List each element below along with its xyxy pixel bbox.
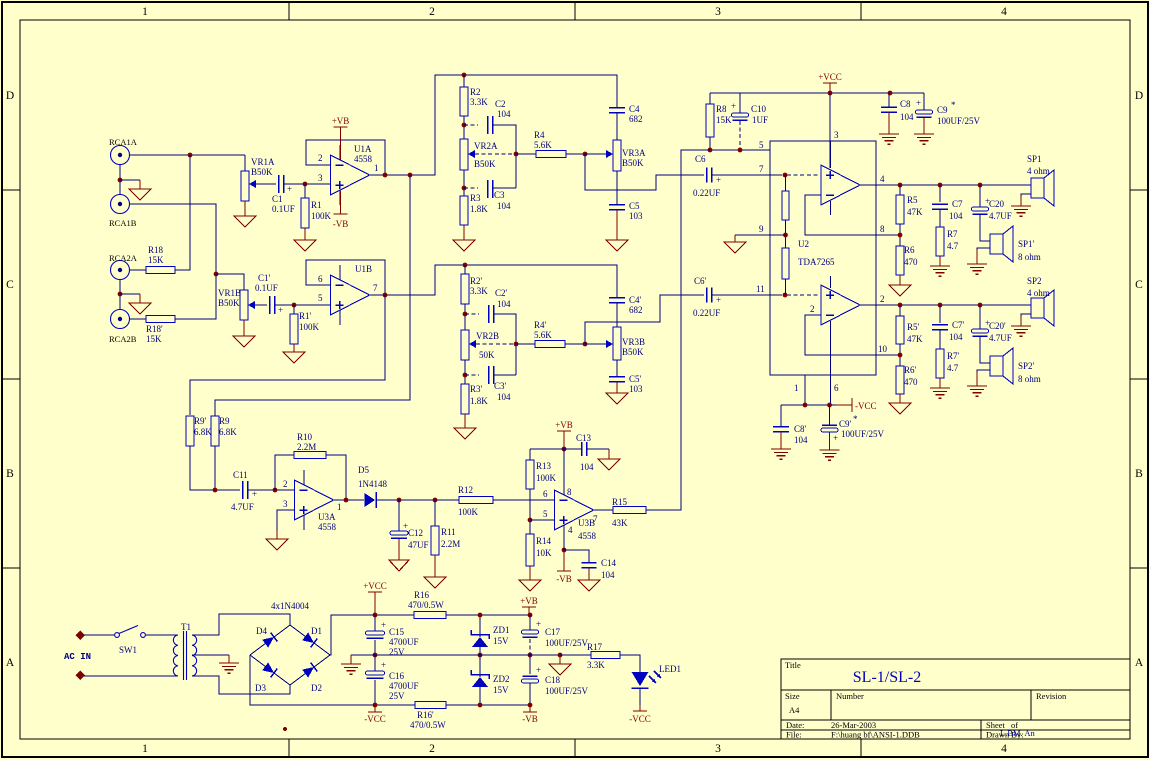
ground SP2' [967, 372, 987, 396]
resistor R7 [936, 227, 944, 256]
capacitor C20' [972, 318, 991, 336]
resistor R9 [211, 416, 219, 446]
svg-text:RCA1A: RCA1A [109, 137, 138, 147]
svg-text:R11: R11 [441, 527, 456, 537]
wire C9' top [829, 405, 831, 425]
svg-text:R9: R9 [219, 416, 230, 426]
svg-text:U1A: U1A [354, 144, 372, 154]
capacitor C7 [932, 204, 948, 209]
junction C1' R1' [292, 303, 297, 308]
svg-text:C16: C16 [389, 671, 405, 681]
svg-text:C11: C11 [233, 470, 248, 480]
wire RCA1A shield to RCA1B [119, 165, 121, 195]
wire pin8 +VB stem [563, 449, 565, 485]
title block [781, 659, 1130, 739]
wire C11 to U3A pin2 [248, 489, 295, 491]
svg-text:-VB: -VB [333, 219, 349, 229]
junction +VB R13 C13 [562, 447, 567, 452]
svg-text:100UF/25V: 100UF/25V [545, 686, 589, 696]
svg-text:47UF: 47UF [408, 540, 429, 550]
ground RCA1 [129, 180, 151, 200]
svg-text:+: + [381, 620, 386, 630]
svg-text:C20': C20' [989, 321, 1006, 331]
svg-text:C: C [1135, 279, 1143, 291]
svg-text:2: 2 [283, 479, 288, 489]
wire RCA1A to VR1A [130, 154, 246, 156]
junction VR2B R3' C3' [463, 373, 468, 378]
svg-text:100UF/25V: 100UF/25V [545, 638, 589, 648]
svg-text:+: + [716, 295, 721, 305]
capacitor C4 [609, 108, 625, 113]
svg-text:4 ohm: 4 ohm [1027, 288, 1050, 298]
power -VB supply [522, 705, 538, 724]
svg-text:C2: C2 [495, 99, 506, 109]
svg-text:VR1B: VR1B [218, 288, 241, 298]
wire C15 bottom [374, 640, 376, 655]
svg-text:4.7UF: 4.7UF [989, 333, 1012, 343]
ground U3A pin3 [266, 530, 288, 550]
ground R17 tap [549, 655, 571, 675]
wire divider middle [785, 220, 787, 248]
svg-text:3: 3 [318, 173, 323, 183]
capacitor C10 [731, 101, 749, 120]
speaker SP1' [990, 226, 1013, 262]
wire shield to ground 2 [120, 293, 140, 295]
svg-text:100UF/25V: 100UF/25V [841, 429, 885, 439]
svg-text:+: + [536, 665, 541, 675]
junction C11 feedback [273, 488, 278, 493]
U2 pin6 stem [830, 321, 832, 405]
svg-text:RCA2B: RCA2B [109, 334, 137, 344]
resistor R3 [460, 196, 468, 225]
wire bridge - to -VCC rail [250, 655, 415, 705]
U2 pin3 stem [830, 141, 832, 168]
svg-text:100K: 100K [536, 473, 557, 483]
transformer T1 [173, 631, 196, 680]
svg-text:4: 4 [880, 174, 885, 184]
wire C6 to U2 pin7 [712, 174, 782, 176]
ground C9 [914, 118, 934, 144]
svg-text:B50K: B50K [474, 159, 496, 169]
wire C16 bottom [374, 680, 376, 705]
wire C15 top [374, 615, 376, 631]
wire C4' to VR3B [616, 303, 618, 328]
op-amp U1B [331, 265, 370, 325]
svg-text:3: 3 [715, 6, 721, 18]
svg-text:Size: Size [785, 691, 800, 701]
wire T1 secondary bottom to bridge [192, 676, 290, 694]
RCA jack RCA1A [111, 146, 130, 165]
svg-text:2: 2 [429, 6, 435, 18]
capacitor C5' [609, 377, 625, 382]
ground R3 [453, 225, 475, 251]
resistor R3' [461, 384, 469, 414]
svg-text:R4: R4 [534, 130, 545, 140]
wire C17 bottom [529, 639, 531, 655]
svg-text:0.1UF: 0.1UF [255, 283, 278, 293]
capacitor C8 [881, 107, 897, 112]
junction C18 -VB rail [528, 703, 533, 708]
svg-text:+: + [716, 175, 721, 185]
svg-text:3.3K: 3.3K [587, 660, 605, 670]
wire U1B feedback [306, 260, 385, 295]
wire to VR3A wiper [585, 153, 607, 155]
capacitor C11 [243, 481, 258, 499]
svg-text:0.22UF: 0.22UF [693, 188, 720, 198]
junction R2 C2 [462, 123, 467, 128]
resistor R8 [706, 104, 714, 137]
resistor R13 [526, 460, 534, 489]
potentiometer VR3B wiper [606, 340, 613, 348]
power +VCC supply [363, 581, 387, 615]
wire pin3 to U2 amp [829, 93, 831, 168]
svg-text:SP1: SP1 [1027, 154, 1042, 164]
wire C3 right [493, 187, 516, 189]
svg-text:C13: C13 [576, 433, 592, 443]
svg-text:1: 1 [794, 383, 799, 393]
wire C12 top [398, 500, 400, 531]
svg-text:+VCC: +VCC [363, 581, 387, 591]
wire C18 top [529, 655, 531, 674]
svg-text:R5: R5 [907, 195, 918, 205]
wire U1B output to R9' [190, 295, 385, 415]
junction C10 pin5 [738, 148, 743, 153]
wire R11 top [434, 500, 436, 526]
svg-text:R10: R10 [297, 432, 313, 442]
svg-text:C14: C14 [601, 558, 617, 568]
svg-text:-VB: -VB [556, 574, 572, 584]
wire R13 top [529, 449, 531, 460]
svg-text:C8': C8' [794, 424, 807, 434]
wire RCA2A shield to RCA2B [119, 280, 121, 310]
wire pin4 output [860, 184, 1031, 186]
op-amp U2 upper [821, 165, 860, 205]
svg-text:4700UF: 4700UF [389, 637, 419, 647]
svg-text:D: D [1135, 90, 1143, 102]
ground C8 [879, 112, 899, 144]
ground SP1 [1011, 196, 1031, 216]
wire C7 top [939, 185, 941, 202]
svg-text:1.8K: 1.8K [470, 204, 488, 214]
wire R10 to output [326, 455, 346, 500]
wire T1 center tap [192, 654, 229, 656]
wire VR1A wiper to C1 [256, 183, 276, 185]
svg-text:470/0.5W: 470/0.5W [410, 720, 446, 730]
wire ground rail [375, 654, 560, 656]
wire C10 top [739, 93, 741, 113]
svg-text:RCA1B: RCA1B [109, 218, 137, 228]
ground VR1A [234, 201, 256, 227]
svg-text:Revision: Revision [1036, 691, 1067, 701]
svg-text:D1: D1 [311, 626, 322, 636]
svg-text:4x1N4004: 4x1N4004 [271, 601, 309, 611]
svg-text:T1: T1 [181, 622, 191, 632]
svg-text:6: 6 [318, 274, 323, 284]
wire node to VR1B [216, 274, 244, 290]
wire wiper to R4 [516, 153, 536, 155]
wire pin7 junction to amp [787, 174, 819, 176]
wire C6' to U2 pin11 [712, 294, 782, 296]
U2 lower amp upper stub [830, 276, 832, 288]
potentiometer VR3A wiper [606, 150, 613, 158]
svg-text:50K: 50K [479, 350, 495, 360]
svg-text:2: 2 [880, 294, 885, 304]
svg-text:R4': R4' [534, 320, 547, 330]
port AC IN pin L [76, 631, 85, 640]
svg-text:682: 682 [629, 114, 643, 124]
svg-text:Number: Number [836, 691, 864, 701]
resistor R9' [186, 416, 194, 446]
svg-text:ZD1: ZD1 [493, 625, 510, 635]
wire C20' top [979, 305, 981, 329]
junction R4' VR3B C6' [583, 342, 588, 347]
resistor R10 [294, 452, 326, 459]
junction R13 R14 pin5 [528, 518, 533, 523]
svg-text:4.7: 4.7 [947, 363, 959, 373]
svg-text:100K: 100K [299, 322, 320, 332]
capacitor C14 [582, 563, 597, 568]
svg-text:2: 2 [429, 743, 435, 755]
port AC IN pin N [76, 671, 85, 680]
resistor R4' [535, 341, 565, 348]
capacitor C1' [270, 296, 284, 315]
ground R11 [424, 555, 446, 588]
svg-text:VR2B: VR2B [476, 331, 499, 341]
wire pin4 stem [563, 525, 565, 550]
svg-text:C9': C9' [839, 419, 852, 429]
svg-text:Date:: Date: [786, 720, 804, 730]
svg-text:104: 104 [580, 462, 594, 472]
junction +VCC pin3 [828, 91, 833, 96]
power +VB U1A [332, 116, 350, 160]
capacitor C1 [279, 175, 293, 194]
svg-text:11: 11 [756, 284, 765, 294]
svg-text:+: + [536, 619, 541, 629]
wire shield to ground [120, 179, 140, 181]
junction ZD2 -VB rail [478, 703, 483, 708]
svg-text:SP2': SP2' [1018, 361, 1035, 371]
wire C1' to U1B pin5 [275, 304, 331, 306]
wire VR2B wiper [476, 343, 516, 345]
svg-text:4.7UF: 4.7UF [989, 211, 1012, 221]
ground R7' [930, 378, 950, 398]
svg-text:+: + [731, 101, 736, 111]
svg-text:R3: R3 [470, 193, 481, 203]
svg-text:6: 6 [543, 489, 548, 499]
wire AC live to SW1 [84, 634, 114, 636]
wire C13 to ground [587, 448, 609, 450]
svg-text:SP2: SP2 [1027, 276, 1042, 286]
wire R15 to U2 pin5 mute [646, 150, 710, 510]
svg-text:4700UF: 4700UF [389, 681, 419, 691]
resistor R1 [301, 198, 309, 228]
svg-text:A4: A4 [789, 705, 800, 715]
svg-text:104: 104 [794, 435, 808, 445]
wire R4' to VR3B [565, 343, 585, 345]
junction VR2A R3 C3 [462, 186, 467, 191]
LED LED1 [632, 671, 662, 688]
svg-text:+: + [916, 98, 921, 108]
svg-text:103: 103 [629, 211, 643, 221]
speaker SP1 [1031, 170, 1054, 206]
junction pin2 C20' [978, 303, 983, 308]
ground R1' [283, 344, 305, 363]
svg-text:R13: R13 [536, 461, 552, 471]
wire C8 top [888, 93, 890, 107]
wire ZD2 top [479, 655, 481, 677]
junction pin6 rail [827, 403, 832, 408]
svg-text:C10: C10 [751, 104, 767, 114]
power -VCC U2 [836, 398, 852, 412]
junction VR2B wiper C2' C3' [514, 342, 519, 347]
svg-text:15K: 15K [146, 334, 162, 344]
junction pin11 divider [783, 293, 788, 298]
svg-text:R6: R6 [904, 245, 915, 255]
potentiometer VR1A body [241, 171, 249, 201]
wire -VB rail [446, 704, 530, 706]
svg-text:6: 6 [834, 383, 839, 393]
wire C7' top [939, 305, 941, 323]
svg-text:B50K: B50K [622, 158, 644, 168]
junction ZD1 +VB rail [478, 613, 483, 618]
junction RCA1A R18 [188, 153, 193, 158]
wire R5 top [899, 185, 901, 195]
svg-text:R16': R16' [417, 710, 434, 720]
wire C16 top [374, 655, 376, 671]
svg-text:104: 104 [949, 332, 963, 342]
junction R5' R6' pin10 [898, 353, 903, 358]
svg-text:9: 9 [759, 224, 764, 234]
wire wiper to R4' [516, 343, 535, 345]
wire C20' to SP2' [980, 336, 990, 363]
capacitor C20 [972, 196, 991, 214]
svg-text:5.6K: 5.6K [534, 140, 552, 150]
svg-text:100K: 100K [311, 211, 332, 221]
wire divider bottom [785, 279, 787, 295]
junction pin4 C14 -VB [562, 548, 567, 553]
wire R5' top [899, 305, 901, 316]
svg-text:8 ohm: 8 ohm [1018, 252, 1041, 262]
junction R8 pin5 [708, 148, 713, 153]
svg-text:1.8K: 1.8K [470, 396, 488, 406]
svg-text:8: 8 [567, 487, 572, 497]
potentiometer VR2A body [460, 139, 468, 170]
svg-text:D: D [6, 90, 14, 102]
potentiometer VR2A wiper [468, 150, 475, 158]
svg-text:104: 104 [949, 211, 963, 221]
svg-text:R12: R12 [458, 485, 473, 495]
svg-text:C5: C5 [629, 201, 640, 211]
capacitor C2' [489, 305, 494, 323]
svg-text:-VCC: -VCC [855, 401, 877, 411]
ground C9' [820, 432, 840, 460]
wire U2 power rail [781, 404, 836, 406]
resistor R17 [591, 652, 620, 659]
wire C2' to C3' [494, 314, 516, 375]
power +VB supply [520, 596, 538, 615]
wire pin9 [735, 234, 786, 236]
wire C2' left [465, 313, 479, 315]
svg-text:104: 104 [900, 112, 914, 122]
RCA jack RCA1B [111, 195, 130, 214]
junction R2' C2' [463, 312, 468, 317]
svg-text:C15: C15 [389, 627, 405, 637]
junction ground rail C15 C16 [373, 653, 378, 658]
svg-text:+: + [278, 305, 283, 315]
svg-text:-VB: -VB [522, 714, 538, 724]
junction D5 R11 [433, 498, 438, 503]
resistor R16 [414, 612, 446, 619]
wire feedback to R10 [275, 455, 294, 490]
svg-text:1: 1 [142, 743, 148, 755]
diode D4 [262, 633, 277, 648]
wire R8 bottom [709, 137, 711, 150]
wire R4 to VR3A [566, 153, 585, 155]
svg-text:B50K: B50K [251, 167, 273, 177]
svg-text:-VCC: -VCC [629, 714, 651, 724]
junction RCA1B R18' node [214, 272, 219, 277]
svg-text:C8: C8 [900, 99, 911, 109]
svg-text:1N4148: 1N4148 [358, 479, 387, 489]
wire pin11 junction to amp [787, 294, 819, 296]
wire C7' to R7' [939, 330, 941, 350]
power -VCC supply [364, 705, 386, 724]
U2 pin1 stem [804, 375, 806, 405]
wire U1A output to R9 [215, 175, 410, 415]
wire VR3A to C5 [616, 171, 618, 204]
wire to C14 [564, 550, 589, 562]
wire U1B output to R2' C4' [370, 265, 618, 297]
ground R1 [294, 228, 316, 251]
svg-text:RCA2A: RCA2A [109, 253, 138, 263]
potentiometer VR1A wiper [249, 180, 256, 188]
junction C17 +VB [528, 613, 533, 618]
junction pin2 C7' [938, 303, 943, 308]
wire ZD2 bottom [479, 687, 481, 705]
potentiometer VR2B body [461, 330, 469, 360]
svg-text:R3': R3' [470, 384, 483, 394]
svg-text:470/0.5W: 470/0.5W [408, 600, 444, 610]
zener ZD2 [471, 670, 489, 687]
svg-text:0.1UF: 0.1UF [272, 204, 295, 214]
svg-text:R5': R5' [907, 322, 920, 332]
capacitor C13 [582, 442, 587, 456]
svg-text:15V: 15V [493, 685, 509, 695]
wire U3A output to D5 [334, 499, 365, 501]
wire bridge + to VCC rail [330, 615, 414, 655]
svg-text:3: 3 [715, 743, 721, 755]
svg-text:C1: C1 [272, 194, 283, 204]
wire SP2 to ground [1021, 314, 1031, 322]
wire R1 top [304, 184, 306, 198]
wire C2 left [464, 124, 478, 126]
junction pin4 C7 [938, 183, 943, 188]
svg-text:104: 104 [497, 392, 511, 402]
capacitor C17 [522, 619, 542, 637]
wire C7 to R7 [939, 209, 941, 227]
ground VR1B [233, 320, 255, 347]
svg-text:4.7: 4.7 [947, 241, 959, 251]
svg-text:3.3K: 3.3K [470, 97, 488, 107]
svg-text:R17: R17 [587, 642, 603, 652]
wire SP1' to ground [977, 248, 990, 264]
wire SP1 to ground [1021, 194, 1031, 203]
wire R5 to R6 [899, 224, 901, 246]
wire U1A feedback [306, 140, 385, 175]
junction ZD1 ground rail [478, 653, 483, 658]
resistor R18' [146, 316, 175, 323]
resistor R11 [431, 526, 439, 555]
